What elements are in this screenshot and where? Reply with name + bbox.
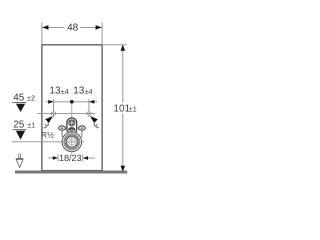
svg-text:18/23: 18/23 (59, 153, 82, 163)
level 0: open triangle datum marker (16, 160, 23, 168)
dimension 48: left arrowhead (42, 25, 48, 30)
dimension 13±4: right arrowhead pointing left (89, 100, 94, 104)
right bolt ellipse: white centre (81, 127, 83, 129)
svg-text:45: 45 (13, 92, 25, 103)
panel outline (sanitary module front view) (42, 45, 102, 171)
drain outlet: outer circle (62, 132, 82, 152)
floor line (15, 171, 127, 174)
left fastening point: crosshair circle (52, 111, 56, 115)
drain outlet: innermost circle (69, 139, 75, 145)
right screw symbol: threaded tail (94, 123, 99, 128)
drain outlet: grey ring (65, 135, 79, 149)
svg-text:±2: ±2 (27, 94, 35, 103)
dimension 48: extension line left (41, 23, 43, 45)
drain outlet: inner circle (66, 136, 77, 147)
svg-text:±1: ±1 (27, 121, 35, 130)
fastening level line (45 cm) (37, 113, 95, 115)
dimension 101: extension line (panel top edge extended) (102, 44, 127, 46)
svg-text:13: 13 (49, 86, 61, 97)
right screw symbol: arrowhead (90, 116, 98, 123)
dimension 18/23: left tick (57, 154, 59, 161)
right fastening point: vertical line (88, 106, 90, 117)
dimension 18/23: left arrowhead pointing right (53, 156, 58, 160)
left bolt ellipse: white centre (61, 127, 63, 129)
drain axis level line (25 cm) (12, 141, 84, 143)
right bolt stem (81, 130, 83, 137)
dimension 18/23: left tail line (48, 157, 53, 159)
dimension 48: dimension line (42, 26, 64, 28)
dimension 48: right arrowhead (96, 25, 102, 30)
water supply connection: nut centre highlight (71, 122, 73, 124)
svg-text:13: 13 (73, 86, 85, 97)
dimension 18/23: right arrowhead pointing left (83, 156, 88, 160)
water supply connection: stadium body (67, 118, 77, 134)
dimension 101: dimension line upper segment (122, 45, 124, 102)
dimension 18/23: right tick (82, 154, 84, 161)
dimension 13±4: left extension/tick line (53, 99, 55, 106)
dimension 13±4: centre dot (70, 100, 74, 104)
svg-text:48: 48 (67, 23, 79, 34)
water supply connection: dark elbow oval (68, 127, 75, 131)
dimension 101: dimension line lower segment (122, 114, 124, 172)
right bolt ellipse (79, 126, 86, 130)
drain outlet: vertical centre line (71, 132, 73, 155)
svg-text:±4: ±4 (61, 87, 69, 96)
level 45: filled triangle marker (16, 104, 25, 112)
level 25: underline (13, 129, 27, 131)
water supply connection: nut dark marks (70, 121, 73, 124)
dimension 101: top arrowhead (121, 45, 126, 51)
left bolt ellipse (59, 126, 66, 130)
dimension 13±4: dimension line (46, 101, 97, 103)
left screw symbol: threaded tail (44, 123, 49, 128)
svg-text:R½: R½ (41, 131, 54, 140)
dimension 18/23: right tail line (88, 157, 95, 159)
water supply centre line (71, 104, 73, 126)
svg-text:25: 25 (13, 119, 25, 130)
svg-text:±1: ±1 (129, 105, 137, 114)
svg-text:±4: ±4 (85, 87, 93, 96)
dimension 101: bottom arrowhead (121, 166, 126, 172)
level 0: underline (16, 158, 24, 160)
dimension 13±4: right extension/tick line (88, 99, 90, 106)
level 25: filled triangle marker (16, 131, 25, 140)
water supply connection: elbow white slit (70, 130, 74, 131)
dimension 13±4: left arrowhead pointing right (48, 100, 53, 104)
level 45: underline (12, 102, 26, 104)
left screw symbol: arrowhead (45, 116, 53, 123)
right fastening point: crosshair circle (87, 111, 91, 115)
water supply connection: upper circle (nut) (69, 120, 75, 126)
left fastening point: vertical line (53, 106, 55, 117)
drain outlet: horizontal centre line (61, 141, 84, 143)
left bolt stem (61, 130, 63, 137)
dimension 48: extension line right (101, 23, 103, 45)
